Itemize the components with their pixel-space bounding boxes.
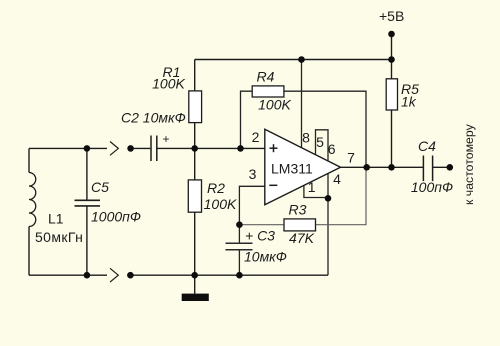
svg-text:+: + [162,132,169,146]
svg-text:R3: R3 [289,202,307,218]
svg-text:1000пФ: 1000пФ [91,209,141,225]
svg-text:8: 8 [302,130,310,146]
svg-text:100пФ: 100пФ [411,179,453,195]
svg-text:7: 7 [347,150,355,166]
svg-text:100K: 100K [152,75,185,91]
svg-text:6: 6 [328,141,336,157]
svg-text:+ C3: + C3 [245,228,275,244]
svg-text:R4: R4 [257,68,275,84]
svg-text:1k: 1k [401,94,417,110]
svg-text:к частотомеру: к частотомеру [462,123,476,205]
svg-text:C2 10мкФ: C2 10мкФ [121,109,186,125]
svg-text:50мкГн: 50мкГн [35,229,83,245]
svg-text:1: 1 [308,179,316,195]
svg-text:C4: C4 [418,138,436,154]
svg-text:100K: 100K [258,96,291,112]
svg-text:L1: L1 [48,210,64,226]
svg-text:3: 3 [249,166,257,182]
svg-text:LM311: LM311 [271,160,313,176]
svg-text:5: 5 [316,134,324,150]
svg-text:4: 4 [333,171,341,187]
svg-text:+5В: +5В [379,8,404,24]
svg-text:C5: C5 [91,179,109,195]
svg-text:47K: 47K [289,230,315,246]
svg-text:R2: R2 [207,180,225,196]
svg-text:100K: 100K [204,196,237,212]
svg-text:10мкФ: 10мкФ [244,249,287,265]
svg-text:2: 2 [252,129,260,145]
